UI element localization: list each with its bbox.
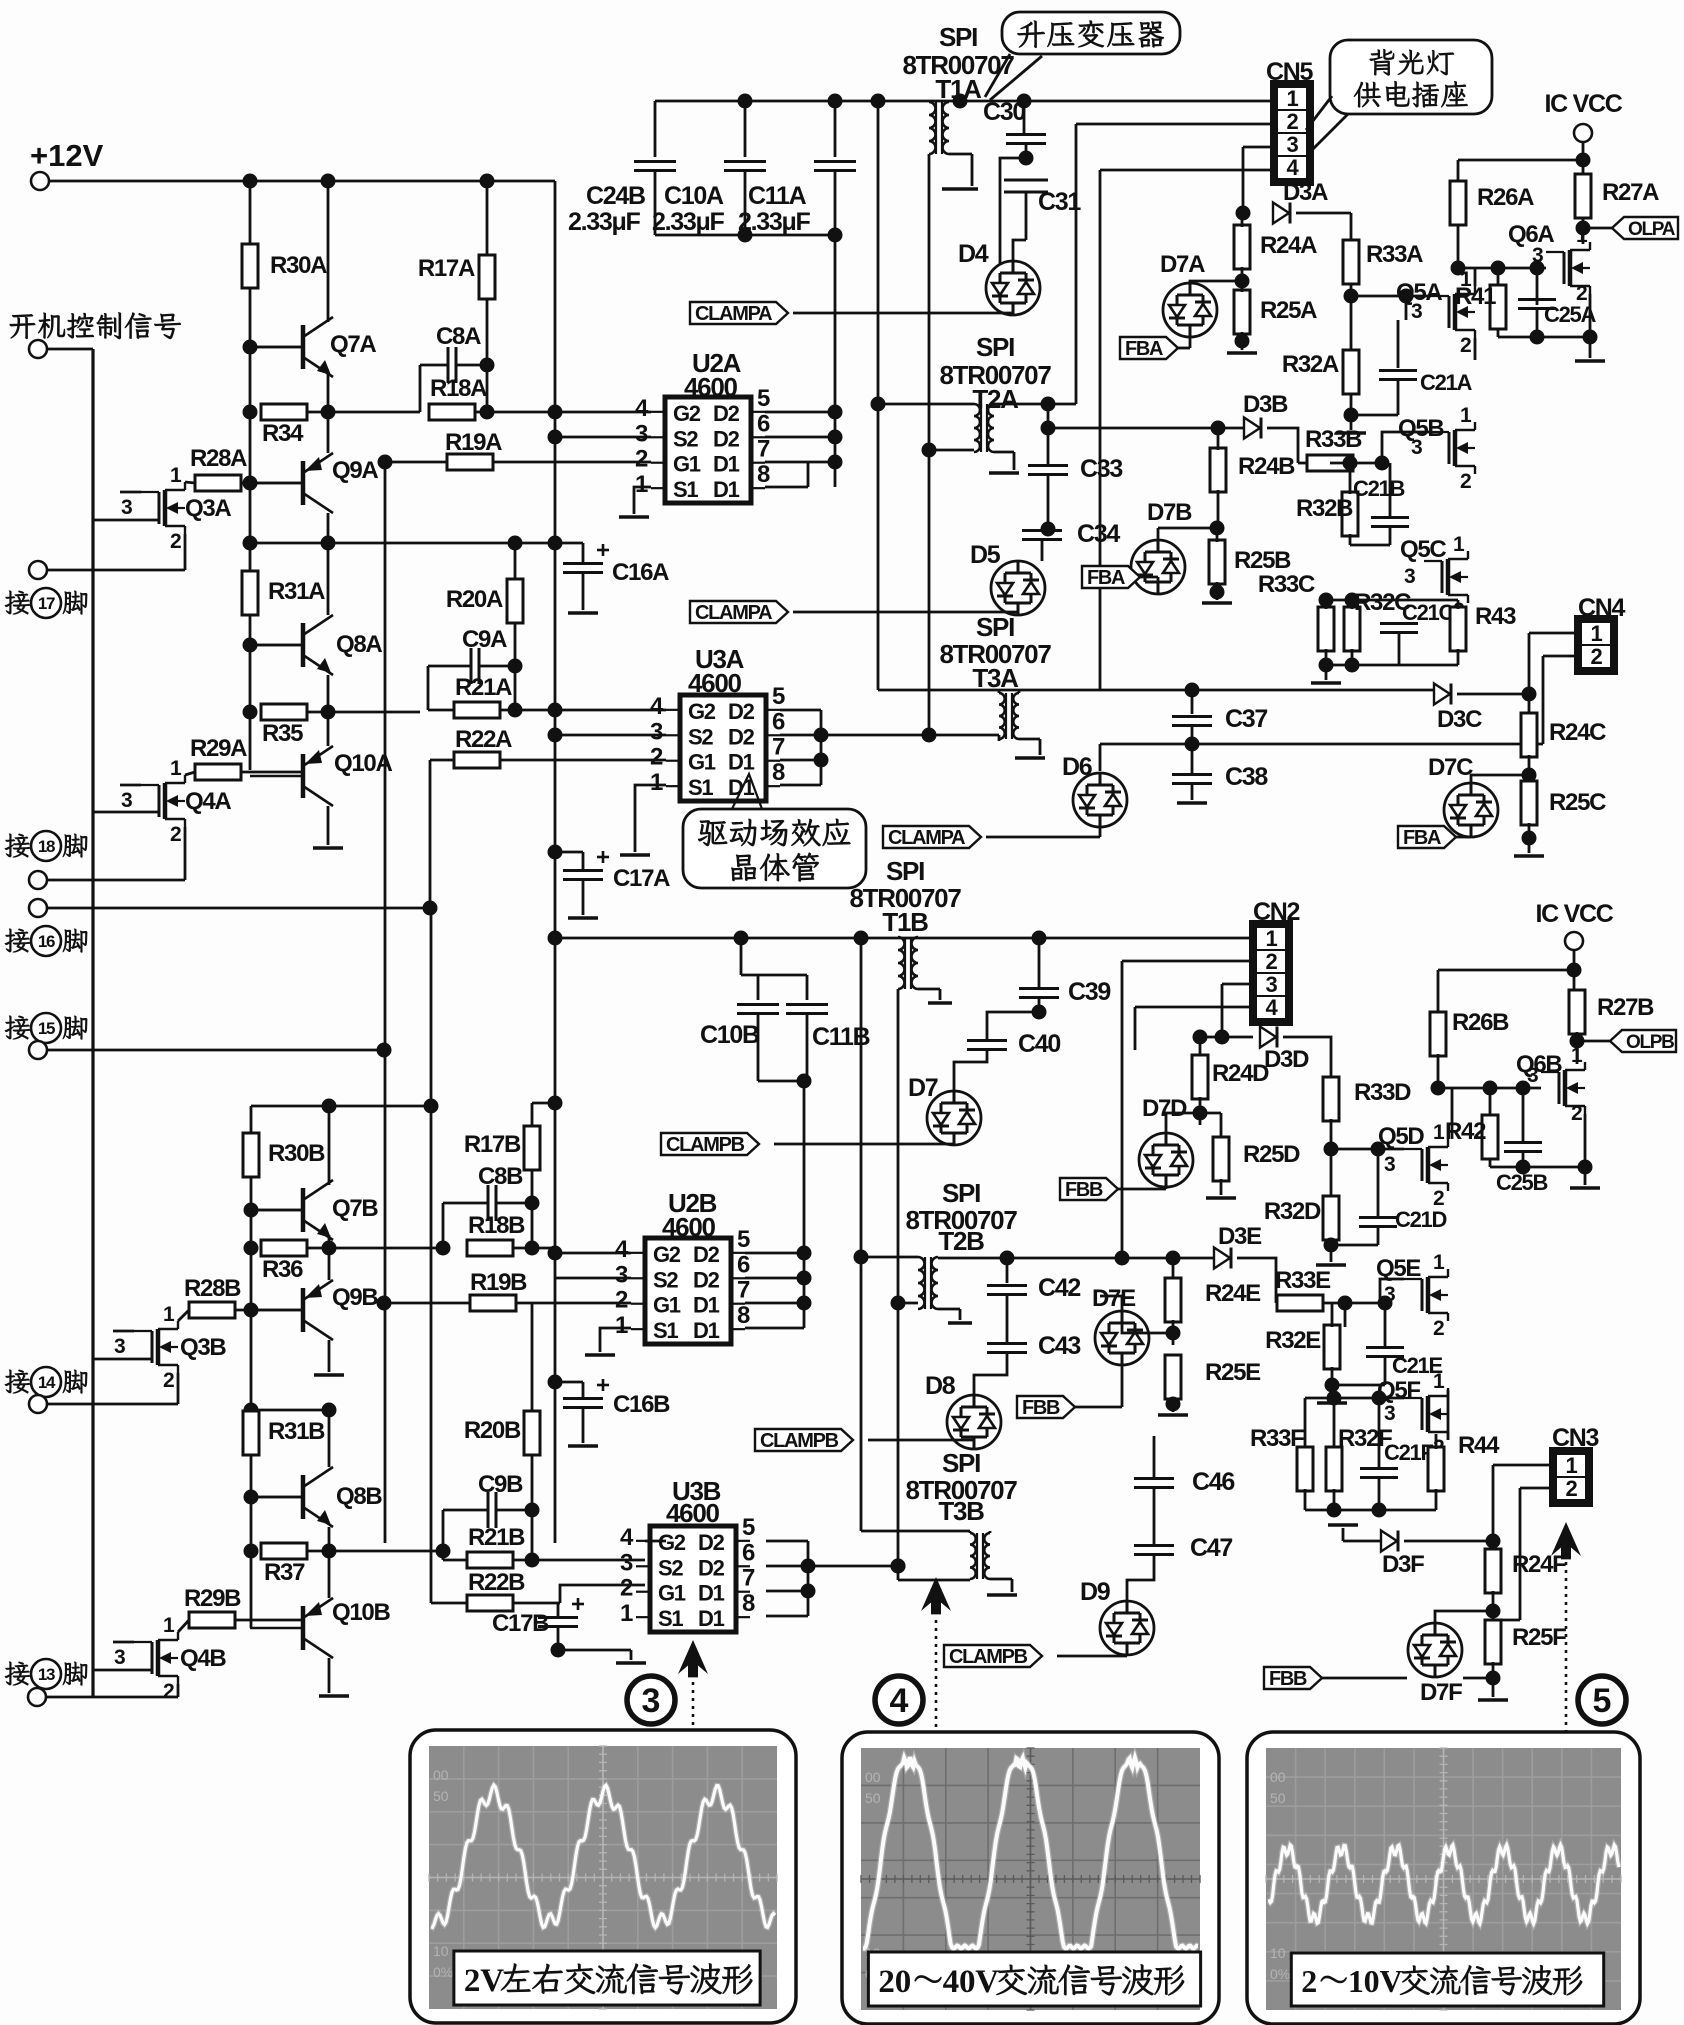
svg-text:2: 2 xyxy=(878,1964,895,2000)
svg-text:S2: S2 xyxy=(653,1267,678,1292)
svg-text:1: 1 xyxy=(1571,1044,1583,1067)
svg-text:R28A: R28A xyxy=(190,445,247,472)
svg-text:C11B: C11B xyxy=(812,1023,870,1051)
svg-text:SPI: SPI xyxy=(942,1178,980,1208)
svg-text:R18A: R18A xyxy=(430,375,487,402)
svg-text:Q9B: Q9B xyxy=(332,1284,378,1311)
svg-text:FBB: FBB xyxy=(1065,1179,1103,1201)
svg-text:1: 1 xyxy=(1460,268,1472,291)
svg-text:2.33μF: 2.33μF xyxy=(568,208,640,236)
svg-text:0: 0 xyxy=(1364,1963,1380,1999)
svg-text:7: 7 xyxy=(737,1277,750,1304)
svg-text:2: 2 xyxy=(1287,109,1299,134)
svg-text:R31A: R31A xyxy=(268,578,325,605)
svg-text:13: 13 xyxy=(38,1665,55,1684)
svg-text:FBA: FBA xyxy=(1087,567,1125,589)
svg-text:S1: S1 xyxy=(673,477,698,502)
svg-text:T1A: T1A xyxy=(935,74,982,104)
svg-text:C21F: C21F xyxy=(1384,1440,1433,1465)
svg-text:R44: R44 xyxy=(1458,1432,1500,1459)
svg-text:C42: C42 xyxy=(1038,1274,1080,1302)
svg-text:R33B: R33B xyxy=(1305,426,1362,453)
svg-text:2: 2 xyxy=(1433,1317,1444,1340)
svg-text:C47: C47 xyxy=(1190,1534,1232,1562)
svg-text:2: 2 xyxy=(170,530,181,553)
svg-text:D2: D2 xyxy=(693,1242,720,1267)
svg-text:D9: D9 xyxy=(1080,1578,1110,1606)
svg-text:SPI: SPI xyxy=(942,1448,980,1478)
svg-text:G1: G1 xyxy=(673,452,701,477)
svg-text:R25B: R25B xyxy=(1234,547,1291,574)
svg-text:D1: D1 xyxy=(728,750,755,775)
svg-text:S1: S1 xyxy=(688,775,713,800)
svg-text:S2: S2 xyxy=(688,724,713,749)
svg-text:R22B: R22B xyxy=(468,1569,525,1596)
svg-text:2: 2 xyxy=(650,744,663,771)
svg-text:D7C: D7C xyxy=(1428,754,1473,781)
svg-text:5: 5 xyxy=(772,683,785,710)
svg-text:1: 1 xyxy=(1566,1453,1578,1478)
svg-text:2: 2 xyxy=(615,1287,628,1314)
svg-text:T3B: T3B xyxy=(938,1496,984,1526)
svg-text:Q8B: Q8B xyxy=(336,1483,382,1510)
svg-text:00: 00 xyxy=(433,1767,449,1783)
svg-text:00: 00 xyxy=(1270,1769,1286,1785)
svg-text:C46: C46 xyxy=(1192,1468,1234,1496)
svg-text:D4: D4 xyxy=(958,240,989,268)
svg-text:0%: 0% xyxy=(433,1964,453,1980)
svg-text:CLAMPA: CLAMPA xyxy=(695,303,772,325)
svg-text:R24F: R24F xyxy=(1512,1551,1566,1578)
svg-text:17: 17 xyxy=(38,594,55,613)
svg-text:3: 3 xyxy=(121,789,132,812)
svg-text:D2: D2 xyxy=(728,724,755,749)
svg-text:4: 4 xyxy=(650,693,664,720)
svg-text:50: 50 xyxy=(433,1788,449,1804)
svg-text:R32A: R32A xyxy=(1282,351,1339,378)
svg-text:D2: D2 xyxy=(698,1555,725,1580)
svg-text:R25C: R25C xyxy=(1549,789,1606,816)
svg-text:8: 8 xyxy=(742,1590,755,1617)
svg-text:SPI: SPI xyxy=(976,332,1014,362)
svg-text:2: 2 xyxy=(1301,1963,1317,1999)
svg-text:C10A: C10A xyxy=(664,182,724,210)
svg-text:R37: R37 xyxy=(264,1559,305,1586)
svg-text:D2: D2 xyxy=(713,426,740,451)
svg-text:50: 50 xyxy=(1270,1790,1286,1806)
svg-text:V: V xyxy=(480,1963,504,1999)
svg-text:R25F: R25F xyxy=(1512,1624,1566,1651)
svg-text:R20A: R20A xyxy=(446,586,503,613)
svg-text:R26B: R26B xyxy=(1452,1009,1509,1036)
svg-text:R24B: R24B xyxy=(1238,453,1295,480)
svg-text:1: 1 xyxy=(163,1614,175,1637)
svg-text:R25E: R25E xyxy=(1205,1359,1261,1386)
svg-text:S2: S2 xyxy=(658,1555,683,1580)
svg-text:D3E: D3E xyxy=(1218,1223,1262,1250)
svg-text:18: 18 xyxy=(38,837,55,856)
svg-text:1: 1 xyxy=(635,471,648,498)
svg-text:R21A: R21A xyxy=(455,674,512,701)
svg-text:R24C: R24C xyxy=(1549,719,1606,746)
svg-text:OLPA: OLPA xyxy=(1628,219,1676,240)
svg-text:4: 4 xyxy=(635,395,649,422)
svg-text:2: 2 xyxy=(1266,949,1278,974)
svg-text:1: 1 xyxy=(170,757,182,780)
svg-text:1: 1 xyxy=(163,1303,175,1326)
svg-text:2: 2 xyxy=(1571,1102,1582,1125)
svg-text:D3C: D3C xyxy=(1437,706,1482,733)
svg-text:15: 15 xyxy=(38,1019,55,1038)
svg-text:8: 8 xyxy=(772,759,785,786)
svg-text:R17B: R17B xyxy=(464,1131,521,1158)
svg-text:R27B: R27B xyxy=(1597,994,1654,1021)
svg-text:3: 3 xyxy=(1404,565,1415,588)
svg-text:00: 00 xyxy=(865,1769,881,1785)
svg-text:Q4A: Q4A xyxy=(185,788,231,815)
svg-text:D2: D2 xyxy=(698,1530,725,1555)
svg-text:G1: G1 xyxy=(653,1293,681,1318)
svg-text:R34: R34 xyxy=(262,420,304,447)
svg-text:Q5E: Q5E xyxy=(1376,1255,1421,1282)
svg-text:D3F: D3F xyxy=(1382,1551,1424,1578)
svg-text:1: 1 xyxy=(1433,1370,1445,1393)
svg-text:2: 2 xyxy=(635,446,648,473)
svg-text:Q5C: Q5C xyxy=(1400,536,1446,563)
svg-text:S2: S2 xyxy=(673,426,698,451)
svg-text:R35: R35 xyxy=(262,720,303,747)
svg-text:2: 2 xyxy=(163,1369,174,1392)
svg-text:C8A: C8A xyxy=(436,323,481,350)
svg-text:FBB: FBB xyxy=(1022,1397,1060,1419)
svg-text:G2: G2 xyxy=(653,1242,681,1267)
svg-text:1: 1 xyxy=(1460,404,1472,427)
svg-text:10: 10 xyxy=(1270,1945,1286,1961)
svg-text:C17B: C17B xyxy=(492,1610,549,1637)
svg-text:3: 3 xyxy=(1384,1153,1395,1176)
svg-text:6: 6 xyxy=(757,410,770,437)
svg-text:2: 2 xyxy=(620,1575,633,1602)
svg-text:C9B: C9B xyxy=(478,1471,523,1498)
svg-text:C40: C40 xyxy=(1018,1030,1060,1058)
svg-text:D7B: D7B xyxy=(1147,499,1192,526)
svg-text:R25D: R25D xyxy=(1243,1141,1300,1168)
svg-text:1: 1 xyxy=(620,1600,633,1627)
svg-text:Q3A: Q3A xyxy=(185,495,231,522)
svg-text:R33F: R33F xyxy=(1250,1425,1304,1452)
svg-text:D7A: D7A xyxy=(1160,251,1205,278)
svg-text:CLAMPB: CLAMPB xyxy=(666,1134,745,1156)
svg-text:Q7A: Q7A xyxy=(330,331,376,358)
svg-text:FBB: FBB xyxy=(1269,1668,1307,1690)
svg-text:+12V: +12V xyxy=(30,138,104,173)
svg-text:CLAMPA: CLAMPA xyxy=(888,827,965,849)
svg-text:CLAMPB: CLAMPB xyxy=(949,1646,1028,1668)
svg-text:D3A: D3A xyxy=(1283,179,1328,206)
svg-text:R33C: R33C xyxy=(1258,571,1315,598)
svg-text:R19B: R19B xyxy=(470,1269,527,1296)
svg-text:0: 0 xyxy=(895,1964,912,2000)
svg-text:8: 8 xyxy=(737,1302,750,1329)
svg-text:50: 50 xyxy=(865,1790,881,1806)
svg-text:D3B: D3B xyxy=(1243,391,1288,418)
svg-text:D2: D2 xyxy=(728,699,755,724)
svg-text:14: 14 xyxy=(38,1373,56,1392)
svg-text:CLAMPA: CLAMPA xyxy=(695,602,772,624)
svg-text:V: V xyxy=(1380,1963,1403,1999)
svg-text:R33A: R33A xyxy=(1366,241,1423,268)
svg-text:C30: C30 xyxy=(983,98,1025,126)
svg-text:7: 7 xyxy=(772,734,785,761)
svg-text:R33D: R33D xyxy=(1354,1079,1411,1106)
svg-text:3: 3 xyxy=(1384,1402,1395,1425)
svg-text:Q4B: Q4B xyxy=(180,1645,226,1672)
svg-text:C17A: C17A xyxy=(613,865,670,892)
svg-text:C39: C39 xyxy=(1068,978,1110,1006)
svg-text:0%: 0% xyxy=(1270,1966,1290,1982)
svg-text:IC VCC: IC VCC xyxy=(1545,90,1623,118)
svg-text:R21B: R21B xyxy=(468,1524,525,1551)
svg-text:4: 4 xyxy=(943,1964,960,2000)
svg-text:6: 6 xyxy=(742,1539,755,1566)
svg-text:5: 5 xyxy=(737,1226,750,1253)
svg-text:Q3B: Q3B xyxy=(180,1334,226,1361)
svg-text:C8B: C8B xyxy=(478,1163,523,1190)
svg-text:3: 3 xyxy=(642,1682,661,1720)
svg-text:R30A: R30A xyxy=(270,252,327,279)
svg-text:Q9A: Q9A xyxy=(332,457,378,484)
svg-text:1: 1 xyxy=(1591,621,1603,646)
svg-text:1: 1 xyxy=(1433,1121,1445,1144)
svg-text:R32E: R32E xyxy=(1265,1327,1321,1354)
svg-text:C37: C37 xyxy=(1225,705,1267,733)
svg-text:10: 10 xyxy=(433,1943,449,1959)
svg-text:Q7B: Q7B xyxy=(332,1195,378,1222)
svg-text:D6: D6 xyxy=(1062,753,1092,781)
svg-text:Q6B: Q6B xyxy=(1516,1051,1562,1078)
svg-text:C24B: C24B xyxy=(586,182,645,210)
svg-text:D1: D1 xyxy=(693,1293,720,1318)
svg-text:D1: D1 xyxy=(698,1581,725,1606)
svg-text:2: 2 xyxy=(1591,644,1603,669)
svg-text:C25A: C25A xyxy=(1544,302,1596,327)
svg-text:G1: G1 xyxy=(658,1581,686,1606)
svg-text:D8: D8 xyxy=(925,1372,956,1400)
svg-text:CLAMPB: CLAMPB xyxy=(760,1430,839,1452)
svg-text:R31B: R31B xyxy=(268,1418,325,1445)
svg-text:D5: D5 xyxy=(970,541,1001,569)
svg-text:Q5B: Q5B xyxy=(1398,415,1444,442)
svg-text:G2: G2 xyxy=(688,699,716,724)
svg-text:4: 4 xyxy=(615,1236,629,1263)
svg-text:4: 4 xyxy=(620,1524,634,1551)
svg-text:C38: C38 xyxy=(1225,763,1268,791)
svg-text:C43: C43 xyxy=(1038,1332,1080,1360)
svg-text:D2: D2 xyxy=(713,401,740,426)
svg-text:C21D: C21D xyxy=(1395,1207,1446,1232)
svg-text:5: 5 xyxy=(742,1514,755,1541)
svg-text:R30B: R30B xyxy=(268,1140,325,1167)
svg-text:C21A: C21A xyxy=(1420,370,1472,395)
svg-text:SPI: SPI xyxy=(976,612,1014,642)
svg-text:D1: D1 xyxy=(698,1606,725,1631)
svg-text:R32B: R32B xyxy=(1296,495,1353,522)
svg-text:OLPB: OLPB xyxy=(1626,1032,1674,1053)
svg-text:R26A: R26A xyxy=(1477,184,1534,211)
svg-text:R24E: R24E xyxy=(1205,1280,1261,1307)
svg-text:R24D: R24D xyxy=(1212,1060,1269,1087)
svg-text:1: 1 xyxy=(650,769,663,796)
svg-text:2: 2 xyxy=(1566,1476,1578,1501)
svg-text:R20B: R20B xyxy=(464,1417,521,1444)
svg-text:1: 1 xyxy=(1266,926,1278,951)
svg-text:Q8A: Q8A xyxy=(336,631,382,658)
svg-text:D1: D1 xyxy=(713,452,740,477)
svg-text:1: 1 xyxy=(1576,224,1588,247)
svg-text:D2: D2 xyxy=(693,1267,720,1292)
svg-text:C16A: C16A xyxy=(612,559,669,586)
svg-text:Q5D: Q5D xyxy=(1378,1123,1424,1150)
svg-text:R24A: R24A xyxy=(1260,232,1317,259)
svg-text:T2B: T2B xyxy=(938,1226,984,1256)
svg-text:D1: D1 xyxy=(693,1318,720,1343)
svg-text:2: 2 xyxy=(1460,470,1471,493)
svg-text:R29A: R29A xyxy=(190,735,247,762)
svg-text:2.33μF: 2.33μF xyxy=(652,208,724,236)
svg-text:R17A: R17A xyxy=(418,255,475,282)
svg-text:3: 3 xyxy=(121,496,132,519)
svg-text:8: 8 xyxy=(757,461,770,488)
svg-text:R43: R43 xyxy=(1475,603,1516,630)
svg-text:1: 1 xyxy=(170,464,182,487)
svg-text:1: 1 xyxy=(1348,1963,1364,1999)
svg-text:Q10B: Q10B xyxy=(332,1599,390,1626)
svg-text:FBA: FBA xyxy=(1125,338,1163,360)
svg-text:D1: D1 xyxy=(713,477,740,502)
svg-text:R25A: R25A xyxy=(1260,297,1317,324)
svg-text:6: 6 xyxy=(772,708,785,735)
svg-text:G2: G2 xyxy=(673,401,701,426)
svg-text:SPI: SPI xyxy=(939,22,977,52)
svg-text:2: 2 xyxy=(464,1963,481,1999)
svg-text:C11A: C11A xyxy=(748,182,807,210)
svg-text:1: 1 xyxy=(1287,86,1299,111)
svg-text:C21B: C21B xyxy=(1353,476,1404,501)
svg-text:S1: S1 xyxy=(653,1318,678,1343)
svg-text:3: 3 xyxy=(620,1549,633,1576)
svg-text:1: 1 xyxy=(1433,1251,1445,1274)
svg-text:5: 5 xyxy=(1593,1682,1612,1720)
svg-text:R19A: R19A xyxy=(445,429,502,456)
svg-text:3: 3 xyxy=(1287,132,1299,157)
svg-text:R22A: R22A xyxy=(455,726,512,753)
svg-text:7: 7 xyxy=(757,436,770,463)
svg-text:SPI: SPI xyxy=(886,856,924,886)
svg-text:R36: R36 xyxy=(262,1256,303,1283)
svg-text:1: 1 xyxy=(615,1312,628,1339)
svg-text:C9A: C9A xyxy=(462,626,507,653)
svg-text:4: 4 xyxy=(890,1682,909,1720)
svg-text:IC VCC: IC VCC xyxy=(1536,900,1614,928)
svg-text:FBA: FBA xyxy=(1403,827,1441,849)
svg-text:D7D: D7D xyxy=(1142,1095,1187,1122)
svg-text:T3A: T3A xyxy=(972,663,1019,693)
svg-text:R32D: R32D xyxy=(1264,1198,1321,1225)
svg-text:T1B: T1B xyxy=(882,907,928,937)
svg-text:3: 3 xyxy=(1266,972,1278,997)
svg-text:V: V xyxy=(975,1964,999,2000)
svg-text:5: 5 xyxy=(757,385,770,412)
svg-text:0: 0 xyxy=(959,1964,976,2000)
svg-text:D7E: D7E xyxy=(1092,1285,1136,1312)
svg-text:G1: G1 xyxy=(688,750,716,775)
svg-text:C10B: C10B xyxy=(700,1021,759,1049)
svg-text:3: 3 xyxy=(635,420,648,447)
svg-text:2: 2 xyxy=(163,1680,174,1703)
svg-text:D3D: D3D xyxy=(1264,1046,1309,1073)
svg-text:R29B: R29B xyxy=(184,1585,241,1612)
svg-text:C16B: C16B xyxy=(613,1391,670,1418)
svg-text:3: 3 xyxy=(615,1261,628,1288)
svg-text:3: 3 xyxy=(650,718,663,745)
svg-text:R28B: R28B xyxy=(184,1275,241,1302)
svg-text:D7F: D7F xyxy=(1420,1679,1462,1706)
svg-text:7: 7 xyxy=(742,1565,755,1592)
svg-text:C21C: C21C xyxy=(1402,600,1454,625)
svg-text:R27A: R27A xyxy=(1602,179,1659,206)
svg-text:D7: D7 xyxy=(908,1074,938,1102)
svg-text:3: 3 xyxy=(114,1646,125,1669)
svg-text:S1: S1 xyxy=(658,1606,683,1631)
svg-text:2: 2 xyxy=(170,823,181,846)
svg-text:3: 3 xyxy=(114,1335,125,1358)
svg-text:16: 16 xyxy=(38,932,55,951)
svg-text:2: 2 xyxy=(1460,334,1471,357)
svg-text:R33E: R33E xyxy=(1275,1267,1331,1294)
svg-text:Q10A: Q10A xyxy=(334,750,392,777)
svg-text:6: 6 xyxy=(737,1251,750,1278)
svg-text:1: 1 xyxy=(1453,533,1465,556)
